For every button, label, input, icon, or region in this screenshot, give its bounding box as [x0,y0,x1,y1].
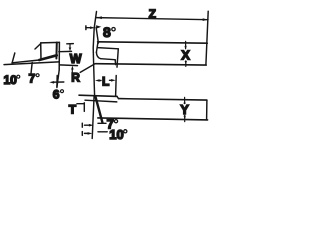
side view bottom edge [98,118,208,120]
W bottom arrow [71,69,73,73]
W lower extension line [59,64,77,67]
svg-text:T: T [69,102,77,116]
side view step [117,96,119,98]
svg-text:7: 7 [29,72,36,86]
end view top face (side rake) thick [39,55,56,60]
top view nose radius [96,52,100,58]
Z right arrowhead [203,18,208,21]
Y dimension top arrow [184,97,186,103]
top view nose corner drop [114,60,116,65]
side view vertical reference thin [92,96,94,139]
X dimension bottom arrow [185,61,187,67]
side view top face line A [79,95,117,96]
8 deg face extension staff [96,27,98,43]
side view lower grind line C [85,100,117,102]
Z left arrowhead [97,16,102,19]
L dimension left arrow [95,79,100,82]
7 deg arrow tail tick [81,123,83,127]
boundary / L right extension line [117,49,118,67]
svg-text:L: L [102,74,109,88]
side view right edge [206,100,208,120]
10 deg leader stub [98,131,107,133]
end view inner double line [55,43,57,59]
W top arrow [69,44,71,48]
top view ground face boundary [98,48,119,49]
8 deg arrow [86,27,92,29]
W top arrow tail tick [67,43,74,45]
svg-text:10: 10 [109,127,123,142]
top view side cutting edge [101,59,115,60]
7 deg arrow (side view) [85,124,91,126]
angle tick 2 [31,63,32,74]
svg-text:6: 6 [53,88,60,102]
top view shank top edge [98,42,208,43]
6 deg vertical reference [56,76,58,87]
left main extension line (nose reference vertical) [93,12,96,97]
end view square top edge [41,41,60,44]
T bracket vertical [83,103,85,112]
end view corner diagonal [35,44,41,50]
svg-text:R: R [71,70,80,84]
angle tick 1 [12,53,15,63]
svg-text:Z: Z [149,7,156,21]
Y dimension bottom arrow [184,115,186,121]
R leader line [80,64,95,73]
L dimension right arrow [110,79,113,81]
top view: Z dimension line [96,18,208,20]
svg-text:10: 10 [4,73,18,87]
8 deg arrow tail tick [85,26,87,30]
end view right edge [58,42,60,70]
X dimension top arrow [185,41,187,48]
top view front edge (8 deg) [96,42,98,52]
side view front face heavy line [95,97,102,123]
end view right edge extension (6 deg face) [57,70,59,88]
svg-text:W: W [70,52,82,66]
horizontal reference line [4,62,59,65]
7 deg leader stub [98,122,106,124]
10 deg arrow tail tick [81,132,83,136]
end view square left edge [40,43,42,60]
right extension line + top view right edge [206,11,208,65]
top view shank bottom edge [95,64,206,65]
8 deg flag [96,25,101,28]
10 deg arrow (side view) [85,132,89,134]
svg-text:8: 8 [103,24,111,40]
W upper extension line [59,50,72,52]
top face extension thin [12,60,39,63]
side view shank top edge B [119,99,207,101]
T bracket horizontal [77,103,84,105]
6 deg arrow [53,81,64,83]
